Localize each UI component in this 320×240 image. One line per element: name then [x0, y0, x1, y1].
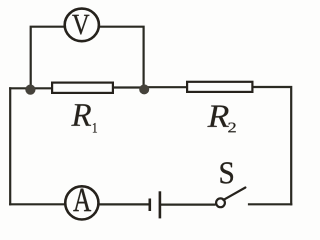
switch S pivot ring [216, 198, 225, 207]
wire: node A up and across to voltmeter [31, 27, 65, 89]
resistor R1 [52, 83, 113, 93]
wire: R1 to node B [113, 86, 144, 88]
wire: switch to bottom-right corner [249, 203, 291, 205]
resistor R2 [187, 82, 252, 92]
wire: bottom-left corner to ammeter [10, 203, 65, 205]
ammeter A [65, 186, 98, 219]
wire: left branch from middle wire down to bottom-left corner [9, 88, 11, 204]
node B (right junction dot) [139, 84, 149, 94]
label S [220, 162, 233, 183]
node A (left junction dot) [25, 85, 35, 95]
wire: R2 to top-right corner and down right side [252, 87, 291, 204]
battery cell: short negative plate [149, 199, 152, 212]
wire: node B to R2 [144, 86, 188, 88]
wire: voltmeter right side across and down to node B [99, 27, 143, 88]
voltmeter V [65, 9, 99, 42]
label R1 [71, 104, 97, 132]
wire: middle run from left corner through node A to R1 [10, 87, 52, 89]
switch S blade [223, 188, 245, 200]
label R2 [207, 106, 235, 133]
wire: ammeter to battery [99, 203, 149, 205]
wire: battery to switch pivot [161, 204, 214, 206]
battery cell: long positive plate [159, 191, 162, 218]
